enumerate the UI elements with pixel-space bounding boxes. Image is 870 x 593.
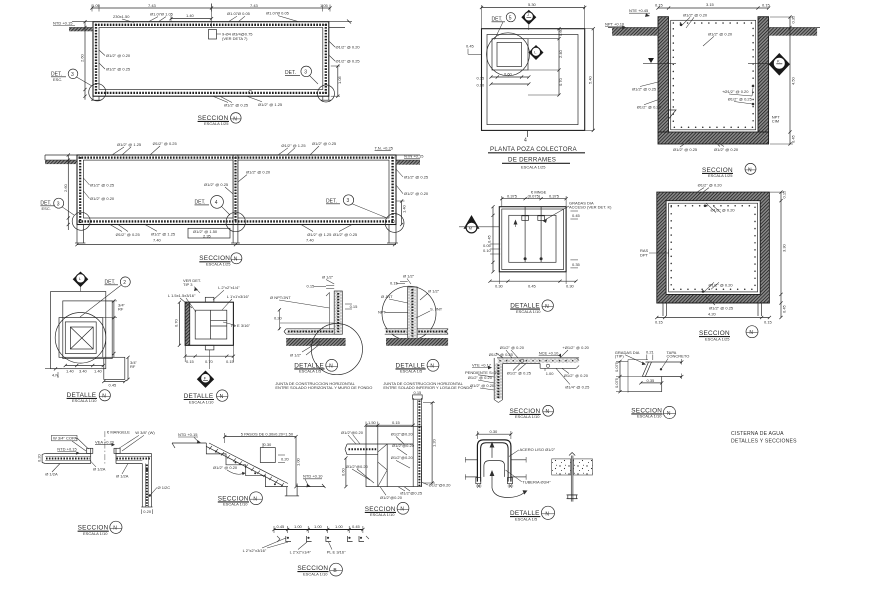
lining rebar dots xyxy=(673,23,753,127)
svg-text:ESCALA 1/25: ESCALA 1/25 xyxy=(521,165,546,170)
left dim xyxy=(178,302,180,345)
opening dims below xyxy=(491,76,529,78)
opening vertical edges xyxy=(90,448,92,463)
outer U bar xyxy=(477,440,511,482)
left dims xyxy=(345,458,347,487)
svg-text:0.70: 0.70 xyxy=(205,359,214,364)
floor slab xyxy=(286,328,334,330)
corner wall xyxy=(493,358,495,400)
svg-text:Ø1/2"@0.20: Ø1/2"@0.20 xyxy=(392,443,415,448)
svg-text:ACERO LISO Ø1/2": ACERO LISO Ø1/2" xyxy=(520,447,556,452)
svg-text:L 2"x2"x1/4": L 2"x2"x1/4" xyxy=(218,285,240,290)
svg-text:ENTRE SOLADO HORIZONTAL Y MURO: ENTRE SOLADO HORIZONTAL Y MURO DE FONDO xyxy=(275,385,372,390)
stair foot xyxy=(286,487,288,496)
svg-text:Ø1.07Ø 0.05: Ø1.07Ø 0.05 xyxy=(227,11,251,16)
svg-text:L 1.5x1.5x3/16": L 1.5x1.5x3/16" xyxy=(168,293,196,298)
SECTION O: tall wall corner section xyxy=(341,390,452,517)
svg-text:1.00: 1.00 xyxy=(335,524,344,529)
anchor feet xyxy=(476,478,481,484)
svg-text:Ø1/2" @ 0.20: Ø1/2" @ 0.20 xyxy=(106,53,131,58)
lower step lines xyxy=(628,391,662,393)
water level left xyxy=(648,58,654,63)
svg-text:Ø 1/2": Ø 1/2" xyxy=(322,275,334,280)
svg-text:ESCALA 1/10: ESCALA 1/10 xyxy=(189,399,214,404)
svg-text:Ø1/2"@0.20: Ø1/2"@0.20 xyxy=(346,464,369,469)
svg-text:Ø1/2" @ 0.25: Ø1/2" @ 0.25 xyxy=(224,103,249,108)
svg-text:Ø1/2" @ 0.25: Ø1/2" @ 0.25 xyxy=(90,183,115,188)
stair slab soffit xyxy=(206,446,283,485)
svg-text:2: 2 xyxy=(123,280,126,286)
svg-text:ENTRE SOLADO INFERIOR Y LOSA D: ENTRE SOLADO INFERIOR Y LOSA DE FONDO xyxy=(383,385,472,390)
left dim chain xyxy=(619,361,621,391)
post right dims xyxy=(278,454,285,456)
top dim xyxy=(225,436,296,438)
svg-text:0.15: 0.15 xyxy=(392,420,401,425)
svg-text:Ø 1/2C: Ø 1/2C xyxy=(158,485,171,490)
svg-text:0.20: 0.20 xyxy=(143,509,152,514)
top dim of square xyxy=(481,5,483,29)
svg-text:Ø1/2"@0.20: Ø1/2"@0.20 xyxy=(391,432,414,437)
svg-text:1.40: 1.40 xyxy=(66,369,75,374)
nested squares xyxy=(499,207,566,272)
outer box xyxy=(185,302,233,345)
svg-text:N: N xyxy=(545,304,549,310)
far right dim 5.40 xyxy=(585,28,593,30)
svg-text:Ø1.07Ø 1.05: Ø1.07Ø 1.05 xyxy=(150,12,174,17)
left slab band xyxy=(45,452,90,454)
horizontal dim 0.35 xyxy=(641,382,662,384)
svg-text:4: 4 xyxy=(215,200,218,206)
washer and nut xyxy=(567,494,578,496)
X square xyxy=(70,327,93,349)
svg-text:Ø1/2" @ 0.25: Ø1/2" @ 0.25 xyxy=(116,232,141,237)
left end cap xyxy=(41,454,43,462)
svg-text:N: N xyxy=(102,394,106,400)
svg-text:Ø1/2" @ 0.25: Ø1/2" @ 0.25 xyxy=(336,59,361,64)
svg-text:NTD +0.10: NTD +0.10 xyxy=(303,474,323,479)
bottom diamond marker xyxy=(209,350,211,369)
svg-text:0.45: 0.45 xyxy=(466,44,475,49)
SECTION B: second long tank section xyxy=(40,141,429,267)
bottom slab hatched xyxy=(658,132,769,144)
corner break triangle xyxy=(669,110,677,119)
svg-text:0.90: 0.90 xyxy=(477,83,486,88)
svg-text:Ø1/2" @ 0.20: Ø1/2" @ 0.20 xyxy=(500,345,525,350)
soffit hatch ticks xyxy=(209,446,284,486)
svg-text:Ø1/2" @ 0.20: Ø1/2" @ 0.20 xyxy=(90,196,115,201)
svg-text:ESCALA 1/10: ESCALA 1/10 xyxy=(223,502,248,507)
svg-text:0.45: 0.45 xyxy=(277,524,286,529)
right concrete block xyxy=(574,459,593,475)
right small dims xyxy=(570,210,578,212)
SECTION D: top-right pit section xyxy=(605,2,820,178)
svg-text:(TIP): (TIP) xyxy=(615,354,625,359)
svg-text:0.075: 0.075 xyxy=(614,361,619,372)
svg-text:0.075: 0.075 xyxy=(614,377,619,388)
ground hatch xyxy=(386,337,448,339)
svg-text:Ø1/2" @ 0.25: Ø1/2" @ 0.25 xyxy=(333,232,358,237)
svg-text:L 1'x1'x3/16": L 1'x1'x3/16" xyxy=(227,294,250,299)
step down to lower slab xyxy=(539,364,541,369)
right small dims xyxy=(345,303,352,305)
steps xyxy=(206,443,288,487)
inner hole profile xyxy=(484,461,505,477)
svg-text:Ø 1/2": Ø 1/2" xyxy=(428,289,440,294)
leader from circle lower xyxy=(302,341,320,352)
svg-text:0.70: 0.70 xyxy=(174,318,179,327)
bottom dim line xyxy=(490,280,576,282)
svg-text:CONCRETO: CONCRETO xyxy=(667,354,690,359)
svg-text:RF: RF xyxy=(118,307,124,312)
svg-text:Ø1/2" @ 0.20: Ø1/2" @ 0.20 xyxy=(470,383,495,388)
svg-text:ESCALA 1/10: ESCALA 1/10 xyxy=(370,512,395,517)
bolt xyxy=(570,456,572,502)
svg-text:7.43: 7.43 xyxy=(148,3,157,8)
tank walls outline xyxy=(93,22,329,97)
svg-text:Ø1/2" @ 0.20: Ø1/2" @ 0.20 xyxy=(683,12,708,17)
bottom dim line xyxy=(657,317,770,319)
svg-text:Ø1/2" @ 0.20: Ø1/2" @ 0.20 xyxy=(213,465,238,470)
svg-text:L 2"x2"x3/16": L 2"x2"x3/16" xyxy=(243,548,267,553)
DETALLE P: U-bolt rung xyxy=(465,429,555,521)
svg-text:Ø1/2"@0.20: Ø1/2"@0.20 xyxy=(429,482,452,487)
corbel diagonals xyxy=(378,444,387,452)
right vertical dim xyxy=(331,65,340,67)
rail lines xyxy=(524,207,526,263)
top dimension line xyxy=(92,7,330,9)
right cell shelves xyxy=(211,319,227,321)
DETALLE I: wall base joint left xyxy=(270,275,372,391)
rebar dots along slab xyxy=(500,360,576,362)
svg-text:1.05: 1.05 xyxy=(320,3,329,8)
svg-text:N: N xyxy=(545,511,549,517)
left small tick xyxy=(468,53,482,55)
top slab xyxy=(497,357,579,359)
left vertical dim xyxy=(84,22,86,100)
PLANTA POZA COLECTORA xyxy=(466,2,595,169)
svg-text:Ø1/2" @ 0.20: Ø1/2" @ 0.20 xyxy=(468,375,493,380)
svg-text:0.15: 0.15 xyxy=(226,359,235,364)
SECTION R: bottom mini section xyxy=(243,524,369,577)
slab extension left + hatch xyxy=(45,154,77,156)
svg-text:DETALLES Y SECCIONES: DETALLES Y SECCIONES xyxy=(731,439,797,445)
svg-text:Ø1/2" @ 0.25: Ø1/2" @ 0.25 xyxy=(106,67,131,72)
svg-text:0.45: 0.45 xyxy=(791,134,796,143)
svg-text:ESCALA 1/5: ESCALA 1/5 xyxy=(299,369,322,374)
svg-text:NTE +0.45: NTE +0.45 xyxy=(629,8,649,13)
svg-text:0.15: 0.15 xyxy=(764,320,773,325)
svg-text:1.00: 1.00 xyxy=(294,524,303,529)
svg-text:0.15: 0.15 xyxy=(350,304,359,309)
SECTION N: roof opening section xyxy=(37,430,171,536)
lower floor line xyxy=(297,486,325,488)
diamond marker 2 xyxy=(529,45,544,60)
svg-text:Ø1/2" @ 0.20: Ø1/2" @ 0.20 xyxy=(246,170,271,175)
DETALLE F: middle plan detail xyxy=(459,190,612,314)
diamond top marker xyxy=(73,272,89,288)
svg-text:NCE +0.10: NCE +0.10 xyxy=(539,350,559,355)
svg-text:4: 4 xyxy=(524,138,527,144)
svg-text:N: N xyxy=(233,116,237,122)
svg-text:ESCALA 1/10: ESCALA 1/10 xyxy=(516,309,541,314)
svg-text:Ø1/2" @ 0.25: Ø1/2" @ 0.25 xyxy=(507,370,532,375)
svg-text:N: N xyxy=(253,497,257,503)
svg-text:0.45: 0.45 xyxy=(528,284,537,289)
big circle xyxy=(382,286,436,340)
svg-text:N: N xyxy=(430,364,434,370)
svg-text:7.43: 7.43 xyxy=(250,3,259,8)
top dim line xyxy=(502,198,566,200)
svg-text:DPT: DPT xyxy=(640,252,649,257)
svg-text:Ø1/2" @ 0.20: Ø1/2" @ 0.20 xyxy=(711,208,736,213)
inner box xyxy=(195,310,227,339)
svg-text:3: 3 xyxy=(304,70,307,76)
step rebar dots xyxy=(215,451,217,453)
svg-text:0.45: 0.45 xyxy=(109,383,118,388)
top dim line xyxy=(658,7,769,9)
svg-text:Ø1/2" @ 0.20: Ø1/2" @ 0.20 xyxy=(709,282,734,287)
right dim xyxy=(423,402,435,404)
svg-text:0.15: 0.15 xyxy=(390,281,399,286)
DETALLE J: wall base joint right xyxy=(378,274,472,391)
opening circle xyxy=(487,33,530,76)
svg-text:2.60: 2.60 xyxy=(80,53,85,62)
svg-text:€ MANGELE: € MANGELE xyxy=(107,430,130,435)
svg-text:Ø1/2" @ 0.25: Ø1/2" @ 0.25 xyxy=(489,352,514,357)
svg-text:3: 3 xyxy=(347,198,350,204)
rebar dots at leader targets xyxy=(752,85,755,88)
wall face lines xyxy=(465,459,477,461)
wall bottom cap xyxy=(141,506,152,508)
center hanging box xyxy=(209,30,217,40)
diamond marker 1 xyxy=(521,10,536,25)
left wall hatched xyxy=(658,17,669,132)
svg-text:0.30: 0.30 xyxy=(566,284,575,289)
slab body xyxy=(646,361,682,363)
floor slabs both sides xyxy=(385,328,408,330)
svg-text:0.70: 0.70 xyxy=(558,77,563,86)
svg-text:Ø1/2" @ 1.25: Ø1/2" @ 1.25 xyxy=(307,232,332,237)
svg-text:0.35: 0.35 xyxy=(572,262,581,267)
top dim xyxy=(477,433,511,435)
top dims xyxy=(366,424,413,426)
small corner box xyxy=(104,357,125,379)
svg-text:1.00: 1.00 xyxy=(546,371,555,376)
bottom dims xyxy=(185,355,233,357)
secondary dim 1.40 xyxy=(171,18,212,20)
svg-text:1.05: 1.05 xyxy=(92,3,101,8)
small box dims xyxy=(104,381,125,383)
svg-text:3: 3 xyxy=(71,72,74,78)
svg-text:T.N. +0.25: T.N. +0.25 xyxy=(375,145,394,150)
inner lining rect xyxy=(671,20,756,130)
svg-text:0.15: 0.15 xyxy=(186,359,195,364)
svg-text:0.20: 0.20 xyxy=(37,453,42,462)
svg-text:0.60: 0.60 xyxy=(504,72,513,77)
opening outer frame xyxy=(492,39,528,70)
svg-text:PLANTA POZA COLECTORA: PLANTA POZA COLECTORA xyxy=(490,146,577,153)
svg-text:5.40: 5.40 xyxy=(588,75,593,84)
svg-text:CISTERNA DE AGUA: CISTERNA DE AGUA xyxy=(731,431,784,437)
curbs xyxy=(87,448,93,453)
bottom center mark xyxy=(526,130,528,137)
inner square xyxy=(487,35,578,125)
left dim xyxy=(492,207,494,272)
inner U bar xyxy=(481,443,509,482)
center line xyxy=(211,4,213,28)
left stub slab xyxy=(347,443,378,445)
svg-text:Ø1/2" @ 0.25: Ø1/2" @ 0.25 xyxy=(673,147,698,152)
left concrete block xyxy=(552,459,571,475)
svg-text:Ø1/2" @ 1.25: Ø1/2" @ 1.25 xyxy=(151,231,176,236)
clip angles xyxy=(286,536,364,542)
left mid small dims xyxy=(490,243,500,245)
svg-text:Ø1/2" @ 0.20: Ø1/2" @ 0.20 xyxy=(564,373,589,378)
centerline xyxy=(104,431,106,464)
svg-text:0.20: 0.20 xyxy=(274,316,283,321)
svg-text:0.30: 0.30 xyxy=(490,429,499,434)
leaders to labels xyxy=(262,538,286,548)
svg-text:1.00: 1.00 xyxy=(314,524,323,529)
svg-text:1.00: 1.00 xyxy=(296,457,301,466)
svg-text:5.30: 5.30 xyxy=(528,2,537,7)
svg-text:1.50: 1.50 xyxy=(368,420,377,425)
svg-text:ESCALA 1/5: ESCALA 1/5 xyxy=(515,516,538,521)
DETALLE G: left X-square detail xyxy=(45,272,138,404)
small tree arrow symbol xyxy=(514,220,518,225)
svg-text:1.40: 1.40 xyxy=(401,204,406,213)
left thick band xyxy=(185,302,190,345)
svg-text:TUBERIA Ø3/4": TUBERIA Ø3/4" xyxy=(522,479,551,484)
mid post rect xyxy=(260,448,275,463)
svg-text:S. JNT: S. JNT xyxy=(430,307,443,312)
svg-text:ESCALA 1/25: ESCALA 1/25 xyxy=(705,336,730,341)
svg-text:NTD +0.15: NTD +0.15 xyxy=(53,21,73,26)
svg-text:N: N xyxy=(748,167,752,173)
small drain circle xyxy=(249,91,252,94)
svg-text:0.10: 0.10 xyxy=(483,248,492,253)
slab extension left + ground hatch xyxy=(72,21,93,23)
svg-text:0.45: 0.45 xyxy=(352,524,361,529)
big circle xyxy=(311,324,362,375)
svg-text:2.35: 2.35 xyxy=(203,233,212,238)
svg-text:5: 5 xyxy=(509,15,512,21)
legs xyxy=(76,225,78,244)
svg-text:Ø1/2" @ 0.20: Ø1/2" @ 0.20 xyxy=(637,105,662,110)
ground hatch right xyxy=(769,27,820,29)
right dim chain xyxy=(770,191,784,193)
svg-text:0.15: 0.15 xyxy=(782,190,787,199)
svg-text:+Ø1/2" @ 0.20: +Ø1/2" @ 0.20 xyxy=(562,345,589,350)
drawing title text xyxy=(731,431,797,445)
svg-text:(VER DETA 7): (VER DETA 7) xyxy=(222,36,248,41)
top stub xyxy=(205,297,214,302)
right vertical dim xyxy=(401,201,403,225)
svg-text:0.20: 0.20 xyxy=(281,457,290,462)
left bottom ticks xyxy=(45,368,62,370)
svg-text:Ø JNT: Ø JNT xyxy=(381,294,393,299)
left vertical dim xyxy=(67,155,69,230)
svg-text:0.15: 0.15 xyxy=(762,3,771,8)
svg-text:ESC.: ESC. xyxy=(42,206,51,211)
svg-text:N: N xyxy=(234,257,238,263)
slab rebar dot rows xyxy=(79,157,395,159)
svg-text:ESCALA 1/10: ESCALA 1/10 xyxy=(83,531,108,536)
wall top cap xyxy=(413,395,423,399)
svg-text:+Ø1/2" @ 0.20: +Ø1/2" @ 0.20 xyxy=(722,89,749,94)
svg-text:5 PASOS DE 0.30x0.20=1.50: 5 PASOS DE 0.30x0.20=1.50 xyxy=(241,431,294,436)
svg-text:N: N xyxy=(546,409,550,415)
svg-text:RF: RF xyxy=(130,364,136,369)
svg-text:Ø 1/2A: Ø 1/2A xyxy=(45,472,58,477)
svg-text:3.15: 3.15 xyxy=(706,2,715,7)
svg-text:7.40: 7.40 xyxy=(306,238,315,243)
svg-text:Ø 1/2A: Ø 1/2A xyxy=(93,467,106,472)
svg-text:W 3/4" COPA: W 3/4" COPA xyxy=(53,436,77,441)
tall wall xyxy=(412,398,414,487)
svg-text:ESCALA 1/25: ESCALA 1/25 xyxy=(206,262,231,267)
svg-text:Ø1/2" @ 0.20: Ø1/2" @ 0.20 xyxy=(708,31,733,36)
top member with dim ticks xyxy=(274,529,363,531)
middle wall xyxy=(232,155,234,225)
svg-text:0.35: 0.35 xyxy=(647,378,656,383)
right dim chain xyxy=(770,16,793,18)
svg-text:ESCALA 1/10: ESCALA 1/10 xyxy=(303,571,328,576)
svg-text:NTD +0.15: NTD +0.15 xyxy=(57,446,77,451)
SECTION M: stairs xyxy=(172,431,326,506)
bottom dim box xyxy=(188,228,230,238)
svg-text:Ø1/2" @ 0.20: Ø1/2" @ 0.20 xyxy=(336,45,361,50)
svg-text:Ø1/2"@0.20: Ø1/2"@0.20 xyxy=(391,455,414,460)
svg-text:NPT +0.10: NPT +0.10 xyxy=(605,22,625,27)
svg-text:Ø1/2" @ 0.25: Ø1/2" @ 0.25 xyxy=(709,305,734,310)
base box xyxy=(366,426,422,486)
corner circles xyxy=(72,212,90,230)
svg-text:(0.075): (0.075) xyxy=(528,194,541,199)
svg-text:0.45: 0.45 xyxy=(487,234,492,243)
svg-text:0.15: 0.15 xyxy=(307,284,316,289)
opening inner frame xyxy=(497,42,522,66)
DETALLE H: frame detail xyxy=(168,278,251,405)
svg-text:3.40: 3.40 xyxy=(79,369,88,374)
outer plan rects xyxy=(51,292,106,369)
svg-text:1.40: 1.40 xyxy=(186,13,195,18)
lower arrow with swoosh xyxy=(491,474,493,489)
svg-text:2.60: 2.60 xyxy=(63,183,68,192)
svg-text:0.45: 0.45 xyxy=(782,304,787,313)
svg-text:7.40: 7.40 xyxy=(153,238,162,243)
svg-text:Ø 1/2": Ø 1/2" xyxy=(403,274,415,279)
SECTION A: top long tank section xyxy=(51,3,360,126)
svg-text:Ø1/2" @ 1.25: Ø1/2" @ 1.25 xyxy=(117,142,142,147)
bottom stub xyxy=(205,345,214,350)
svg-text:Ø1/2" @ 0.25: Ø1/2" @ 0.25 xyxy=(153,141,178,146)
svg-text:TIP 3: TIP 3 xyxy=(183,282,193,287)
svg-text:M: M xyxy=(469,225,472,230)
bottom slab rebar dots xyxy=(95,92,328,94)
svg-text:230x1.50: 230x1.50 xyxy=(113,14,130,19)
svg-text:4.50: 4.50 xyxy=(791,76,796,85)
svg-text:2.40: 2.40 xyxy=(558,49,563,58)
svg-text:0.15: 0.15 xyxy=(655,3,664,8)
svg-text:0.15: 0.15 xyxy=(655,320,664,325)
svg-text:NTD +0.15: NTD +0.15 xyxy=(178,432,198,437)
svg-text:3.30: 3.30 xyxy=(782,243,787,252)
svg-text:0.30: 0.30 xyxy=(264,442,273,447)
hatched wall ring xyxy=(657,192,770,303)
svg-text:0.15: 0.15 xyxy=(477,76,486,81)
svg-text:0.35: 0.35 xyxy=(791,15,796,24)
